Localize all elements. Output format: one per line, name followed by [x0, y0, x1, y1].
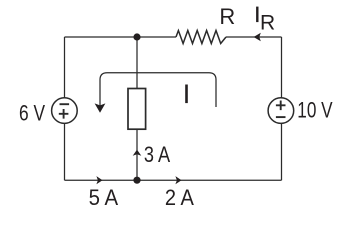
svg-text:2 A: 2 A [165, 185, 194, 210]
svg-text:10 V: 10 V [297, 98, 333, 123]
svg-text:R: R [219, 4, 235, 29]
svg-text:R: R [260, 11, 275, 34]
svg-text:3 A: 3 A [144, 142, 171, 167]
svg-text:6 V: 6 V [19, 100, 45, 125]
svg-text:5 A: 5 A [89, 185, 119, 210]
